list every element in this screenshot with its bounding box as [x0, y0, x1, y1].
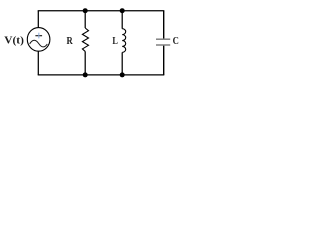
svg-text:L: L: [112, 36, 117, 47]
svg-text:V(t): V(t): [4, 36, 24, 47]
svg-text:R: R: [66, 37, 72, 48]
svg-text:C: C: [173, 37, 179, 48]
